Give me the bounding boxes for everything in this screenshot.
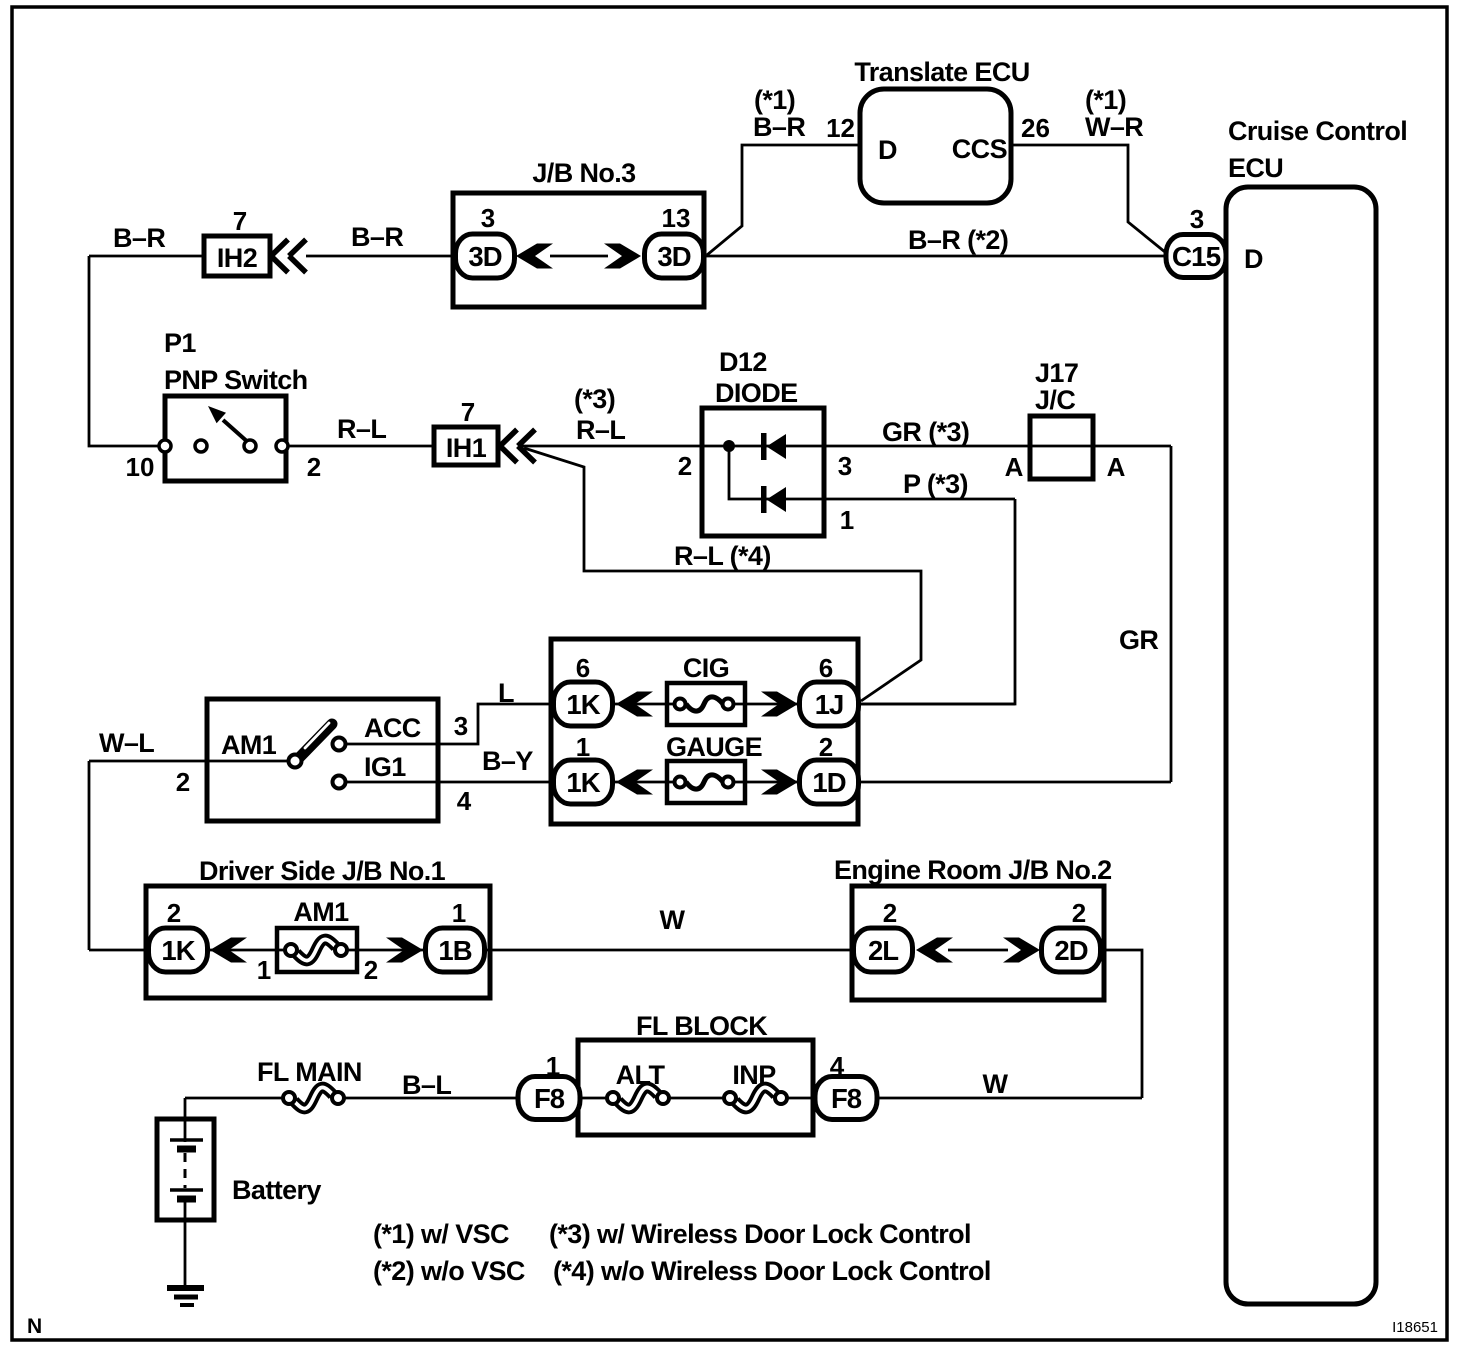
svg-text:(*4) w/o Wireless Door Lock Co: (*4) w/o Wireless Door Lock Control <box>553 1256 991 1286</box>
fusible link FL MAIN element <box>283 1087 344 1108</box>
wire GR vertical <box>1170 446 1173 782</box>
svg-text:2: 2 <box>307 452 321 482</box>
wire pin12 to J/B No.3 node <box>707 145 860 255</box>
battery plate long bottom <box>170 1188 203 1192</box>
svg-text:CIG: CIG <box>683 653 729 683</box>
connector C15 <box>1166 235 1226 278</box>
svg-text:Engine Room J/B No.2: Engine Room J/B No.2 <box>834 855 1112 885</box>
diode element lower <box>761 486 786 513</box>
wire B-L <box>344 1097 518 1100</box>
svg-text:6: 6 <box>576 653 590 683</box>
connector 3D right <box>645 234 704 278</box>
svg-text:A: A <box>1005 452 1024 482</box>
connector F8 left <box>518 1077 580 1120</box>
chevron arrows at IH2 <box>271 240 306 273</box>
svg-text:1K: 1K <box>566 689 600 720</box>
svg-text:D12: D12 <box>719 347 767 377</box>
svg-text:W: W <box>660 905 686 935</box>
Driver Side J/B No.1 box <box>146 886 490 998</box>
wire CIG row right <box>726 703 800 706</box>
arrow into 1D <box>761 770 798 795</box>
ignition switch pivot circle <box>289 755 302 768</box>
ignition switch box <box>207 699 438 821</box>
battery box <box>157 1119 214 1220</box>
svg-text:Cruise Control: Cruise Control <box>1228 116 1407 146</box>
wire down into battery <box>184 1098 187 1142</box>
svg-text:F8: F8 <box>831 1083 862 1114</box>
ACC contact circle <box>333 738 346 751</box>
arrow into 3D left <box>516 244 553 269</box>
wire PNP to IH1 <box>288 445 434 448</box>
wire IH1 to diode and GR bus <box>518 445 1171 448</box>
svg-text:B–Y: B–Y <box>482 746 533 776</box>
svg-text:(*1): (*1) <box>1085 85 1126 115</box>
wire GAUGE row left <box>610 781 682 784</box>
ground symbol <box>167 1285 204 1291</box>
connector 2L <box>854 928 913 972</box>
svg-text:(*1): (*1) <box>754 85 795 115</box>
svg-text:Driver Side J/B No.1: Driver Side J/B No.1 <box>199 856 446 886</box>
svg-text:DIODE: DIODE <box>715 378 798 408</box>
FL BLOCK box <box>578 1040 813 1135</box>
svg-text:D: D <box>1244 244 1263 274</box>
svg-text:1K: 1K <box>566 767 600 798</box>
Cruise Control ECU box <box>1226 187 1376 1304</box>
svg-text:C15: C15 <box>1172 241 1221 272</box>
wire into 1K <box>89 949 150 952</box>
svg-text:1: 1 <box>257 955 271 985</box>
svg-text:1: 1 <box>452 898 466 928</box>
wire battery to ground <box>184 1199 187 1288</box>
wire W-L drop to J/B No.1 <box>88 761 91 950</box>
wire inside J/B No.2 <box>948 949 1008 952</box>
connector 1D <box>800 760 859 804</box>
connector 1J <box>800 682 859 726</box>
svg-text:P (*3): P (*3) <box>903 469 968 499</box>
battery plate short bottom <box>177 1196 196 1203</box>
fusible link AM1 box <box>277 928 357 972</box>
svg-text:26: 26 <box>1021 113 1050 143</box>
svg-text:J/C: J/C <box>1035 385 1075 415</box>
arrow into 2D <box>1003 938 1040 963</box>
connector IH1 box <box>434 427 498 465</box>
svg-text:10: 10 <box>126 452 155 482</box>
arrow into 3D right <box>604 244 641 269</box>
diode element upper <box>761 433 786 460</box>
svg-text:B–R: B–R <box>753 112 805 142</box>
wire junction to lower diode <box>729 446 1015 499</box>
PNP switch box <box>165 396 286 481</box>
svg-text:12: 12 <box>826 113 855 143</box>
fusible link INP element <box>724 1087 787 1108</box>
J/B No.3 box <box>453 193 704 307</box>
svg-text:N: N <box>27 1315 42 1338</box>
svg-text:3D: 3D <box>657 241 690 272</box>
IG1 contact circle <box>333 776 346 789</box>
svg-text:(*2) w/o VSC: (*2) w/o VSC <box>373 1256 525 1286</box>
svg-text:2: 2 <box>1072 898 1086 928</box>
wire B-R (*2) bus <box>704 255 1167 258</box>
svg-text:L: L <box>498 678 514 708</box>
connector 1B <box>426 928 485 972</box>
wire row left segment <box>208 949 285 952</box>
PNP switch lever <box>223 420 250 444</box>
wire FL BLOCK segments <box>578 1097 608 1100</box>
svg-text:1: 1 <box>840 505 854 535</box>
svg-text:IH2: IH2 <box>217 243 257 273</box>
connector 3D left <box>456 234 515 278</box>
wire row right segment <box>347 949 427 952</box>
svg-text:7: 7 <box>233 206 247 236</box>
fuse GAUGE element <box>675 775 734 789</box>
fusible link ALT element <box>607 1087 669 1108</box>
svg-text:I18651: I18651 <box>1392 1319 1438 1336</box>
svg-text:(*3): (*3) <box>574 384 615 414</box>
svg-text:B–R (*2): B–R (*2) <box>908 225 1008 255</box>
connector 1K top <box>554 682 613 726</box>
Engine Room J/B No.2 box <box>852 886 1104 1000</box>
wire IH2 to J/B No.3 <box>306 255 453 258</box>
fusible link AM1 element <box>285 939 347 960</box>
svg-text:1K: 1K <box>161 935 195 966</box>
svg-text:(*1) w/ VSC: (*1) w/ VSC <box>373 1219 509 1249</box>
svg-text:R–L (*4): R–L (*4) <box>674 541 771 571</box>
svg-text:2: 2 <box>364 955 378 985</box>
svg-text:3: 3 <box>838 451 852 481</box>
svg-text:ECU: ECU <box>1228 153 1283 183</box>
svg-text:FL MAIN: FL MAIN <box>257 1057 362 1087</box>
svg-text:W–L: W–L <box>99 728 154 758</box>
arrow into 1J <box>761 692 798 717</box>
svg-text:CCS: CCS <box>952 134 1007 164</box>
Translate ECU box <box>860 89 1011 203</box>
svg-text:3D: 3D <box>468 241 501 272</box>
svg-text:AM1: AM1 <box>221 730 277 760</box>
svg-text:2: 2 <box>678 451 692 481</box>
arrow into 1B <box>386 938 423 963</box>
svg-text:J17: J17 <box>1035 358 1078 388</box>
svg-text:1B: 1B <box>438 935 471 966</box>
wire CIG row left <box>610 703 682 706</box>
battery plate short top <box>177 1146 196 1153</box>
svg-text:IH1: IH1 <box>446 433 487 463</box>
wire left drop to PNP switch <box>89 256 165 446</box>
wire battery to FL MAIN <box>185 1097 284 1100</box>
wire W long <box>486 949 852 952</box>
arrow into 1K top <box>616 692 653 717</box>
svg-text:A: A <box>1107 452 1126 482</box>
PNP contact circle b <box>244 440 256 452</box>
fuse J/B box <box>551 639 858 824</box>
svg-text:2L: 2L <box>868 935 898 966</box>
wire pin26 to C15 <box>1011 145 1165 252</box>
svg-text:B–R: B–R <box>113 223 165 253</box>
svg-text:2: 2 <box>176 767 190 797</box>
wire W lower <box>877 1097 1142 1100</box>
junction connector J17 box <box>1030 416 1093 479</box>
wire GAUGE row right <box>726 781 800 784</box>
svg-text:1D: 1D <box>812 767 845 798</box>
svg-text:GR (*3): GR (*3) <box>882 417 969 447</box>
connector IH2 box <box>204 236 270 276</box>
svg-text:F8: F8 <box>534 1083 565 1114</box>
wire R-L (*4) from IH1 to 1J <box>524 448 921 701</box>
connector 1K J/B No.1 <box>149 928 208 972</box>
wire B-R from frame-left to IH2 <box>89 255 204 258</box>
svg-text:R–L: R–L <box>337 414 386 444</box>
connector 2D <box>1042 928 1101 972</box>
PNP terminal circle pin2 <box>276 440 288 452</box>
svg-text:ACC: ACC <box>364 713 421 743</box>
svg-text:4: 4 <box>457 786 472 816</box>
svg-text:Translate ECU: Translate ECU <box>854 57 1029 87</box>
svg-text:PNP Switch: PNP Switch <box>164 365 308 395</box>
fuse CIG box <box>667 683 745 725</box>
svg-text:B–L: B–L <box>402 1070 451 1100</box>
diode D12 box <box>702 408 824 536</box>
svg-text:R–L: R–L <box>576 415 625 445</box>
svg-text:3: 3 <box>454 711 468 741</box>
wire P(*3) down to 1J <box>858 499 1015 704</box>
wire 1D to GR vertical <box>858 781 1171 784</box>
arrow into 1K of J/B No.1 <box>210 938 247 963</box>
connector 1K lower <box>554 760 613 804</box>
wire inside J/B No.3 <box>550 255 608 258</box>
svg-text:GR: GR <box>1119 625 1158 655</box>
junction dot node <box>723 440 735 452</box>
svg-text:13: 13 <box>662 203 691 233</box>
svg-text:IG1: IG1 <box>364 752 406 782</box>
svg-text:2D: 2D <box>1054 935 1087 966</box>
svg-text:7: 7 <box>461 397 475 427</box>
svg-text:2: 2 <box>167 898 181 928</box>
arrow into 1K lower <box>616 770 653 795</box>
svg-text:AM1: AM1 <box>293 897 349 927</box>
svg-text:2: 2 <box>883 898 897 928</box>
battery plate long top <box>170 1138 203 1142</box>
svg-text:(*3) w/ Wireless Door Lock Con: (*3) w/ Wireless Door Lock Control <box>549 1219 971 1249</box>
svg-text:P1: P1 <box>164 328 196 358</box>
svg-text:6: 6 <box>819 653 833 683</box>
battery cell dashed link <box>184 1153 187 1188</box>
svg-text:B–R: B–R <box>351 222 403 252</box>
PNP contact circle a <box>195 440 207 452</box>
wire W-L into switch <box>89 760 295 763</box>
svg-text:GAUGE: GAUGE <box>666 732 762 762</box>
svg-text:D: D <box>878 135 897 165</box>
fuse CIG element <box>675 697 734 711</box>
svg-text:W: W <box>983 1069 1009 1099</box>
svg-text:W–R: W–R <box>1085 112 1143 142</box>
svg-text:3: 3 <box>1190 204 1204 234</box>
svg-text:FL BLOCK: FL BLOCK <box>636 1011 768 1041</box>
svg-text:J/B No.3: J/B No.3 <box>532 158 636 188</box>
PNP terminal circle pin10 <box>159 440 171 452</box>
wire IG1 to GAUGE fuse row <box>346 781 553 784</box>
svg-text:Battery: Battery <box>232 1175 321 1205</box>
connector F8 right <box>815 1077 877 1120</box>
wire 1J to P(*3) node <box>858 703 1015 706</box>
arrow into 2L <box>916 938 953 963</box>
svg-text:1J: 1J <box>815 689 844 720</box>
chevron arrows at IH1 <box>500 430 535 463</box>
wire 2D down to W bus <box>1101 950 1142 1098</box>
svg-text:3: 3 <box>481 203 495 233</box>
wire ACC to L fuse row <box>346 704 553 744</box>
ignition switch lever <box>297 724 332 760</box>
fuse GAUGE box <box>667 761 745 803</box>
